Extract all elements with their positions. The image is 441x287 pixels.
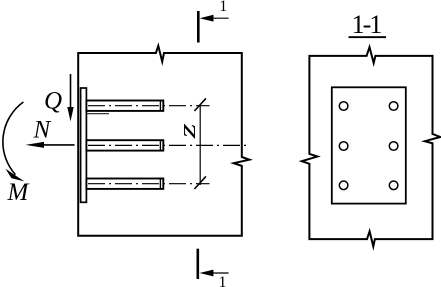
moment arc M	[3, 102, 24, 175]
section cut mark top: thick line	[197, 11, 200, 43]
anchor bolt 1 centerline (dash-dot)	[88, 105, 210, 107]
dimension tick bottom	[194, 176, 206, 189]
svg-text:1: 1	[219, 0, 227, 15]
bolt hole row 3 right	[389, 181, 398, 190]
force arrow Q (vertical, downward)	[70, 74, 72, 110]
anchor bolt 3 (bottom) body	[86, 179, 163, 189]
svg-text:1: 1	[219, 274, 227, 287]
svg-text:1-1: 1-1	[352, 10, 382, 39]
concrete section outline (right view, with break symbols on all four sides)	[302, 47, 441, 246]
anchor bolt 2 end cap line	[159, 140, 161, 150]
anchor bolt 2 (middle) body	[86, 140, 163, 150]
base plate (column end plate)	[81, 88, 87, 202]
moment arrowhead	[6, 169, 25, 182]
dimension tick top	[194, 98, 206, 111]
anchor bolt 2 centerline (dash-dot, extends past block edge)	[88, 144, 249, 146]
svg-text:Q: Q	[44, 88, 62, 115]
force arrow N (horizontal, leftward)	[42, 144, 75, 146]
svg-text:M: M	[7, 179, 30, 206]
section cut mark bottom: thick line	[197, 249, 200, 279]
base plate section (inner rectangle)	[332, 87, 406, 203]
anchor bolt 3 centerline (dash-dot)	[88, 183, 210, 185]
svg-text:z: z	[173, 123, 200, 140]
anchor bolt 1 (top) body	[86, 101, 163, 111]
short line under bolt 1	[87, 113, 109, 115]
section cut mark top: arrow	[205, 17, 229, 19]
dimension line z (vertical)	[199, 105, 201, 186]
bolt hole row 1 right	[389, 102, 398, 111]
concrete foundation outline (left elevation view, with break symbols)	[78, 46, 249, 236]
anchor bolt 1 end cap line	[159, 101, 161, 111]
svg-text:N: N	[33, 117, 52, 144]
title underline	[349, 36, 387, 38]
bolt hole row 2 right	[389, 142, 398, 151]
anchor bolt 3 end cap line	[159, 179, 161, 189]
bolt hole row 3 left	[339, 181, 348, 190]
section cut mark bottom: arrow	[205, 272, 229, 274]
bolt hole row 1 left	[339, 102, 348, 111]
bolt hole row 2 left	[339, 142, 348, 151]
